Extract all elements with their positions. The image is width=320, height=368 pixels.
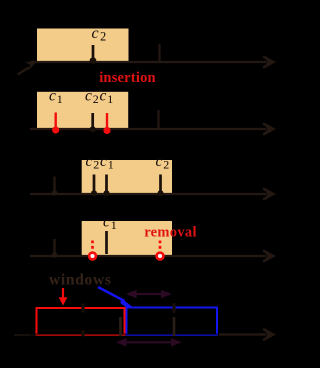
axis arrowhead row2	[263, 123, 273, 134]
window rectangle row3	[82, 160, 172, 194]
dot c2b row3	[158, 190, 164, 196]
red tick c1 right row2	[106, 113, 108, 128]
axis row4	[30, 255, 266, 257]
tick c2 row3	[93, 175, 96, 192]
tick crossing blue box top	[172, 303, 175, 313]
tick row1 right	[158, 44, 160, 63]
svg-text:removal: removal	[144, 225, 197, 241]
svg-text:windows: windows	[49, 272, 112, 289]
blue pointer line	[98, 287, 125, 301]
tick row2 right	[157, 110, 159, 130]
dot c2 row1	[90, 57, 97, 64]
axis arrowhead row1	[263, 56, 273, 67]
axis row5 right segment	[219, 333, 266, 335]
axis row1	[30, 61, 266, 63]
dot c1 row3	[104, 190, 110, 196]
upper span double arrow	[128, 293, 170, 295]
axis arrowhead row5	[263, 329, 273, 340]
axis arrowhead row3	[263, 188, 273, 199]
window rectangle row2	[37, 92, 128, 129]
left small dot row4	[52, 252, 58, 258]
red window box	[37, 308, 125, 335]
window rectangle row4	[82, 221, 172, 256]
incoming diagonal arrow row1	[18, 68, 30, 75]
window rectangle row1	[37, 29, 129, 63]
red dotted tick right row4	[159, 241, 162, 252]
axis row5 faint left segment	[14, 334, 36, 336]
blue window box	[127, 308, 218, 336]
tick c2b row3	[159, 175, 162, 192]
tick c2 row1	[92, 45, 95, 60]
left tick row4	[53, 239, 55, 253]
tick crossing red box bottom	[81, 330, 84, 337]
svg-text:insertion: insertion	[99, 70, 156, 86]
black tick c1 row4	[105, 231, 108, 254]
black dot c2 row2	[90, 126, 96, 132]
tick c1 row3	[105, 175, 108, 192]
red dot right row2	[103, 127, 110, 134]
tick in red box	[119, 317, 122, 336]
lower span double arrow	[118, 341, 180, 343]
tick crossing red box top	[81, 304, 84, 313]
dot c2 row3	[91, 190, 97, 196]
red tick c1 left row2	[55, 113, 57, 128]
red dot left row2	[52, 126, 59, 133]
left tick row3	[53, 177, 55, 191]
red ring left row4	[89, 253, 96, 260]
red ring right row4	[157, 253, 164, 260]
axis row2	[30, 128, 266, 130]
red dotted tick left row4	[91, 241, 94, 252]
axis arrowhead row4	[263, 250, 273, 261]
axis row5 overlay over window bottoms	[30, 333, 219, 335]
red pointer arrow	[62, 288, 64, 299]
left small dot row3	[52, 190, 58, 196]
axis row3	[30, 193, 266, 195]
black tick c2 row2	[91, 113, 94, 127]
